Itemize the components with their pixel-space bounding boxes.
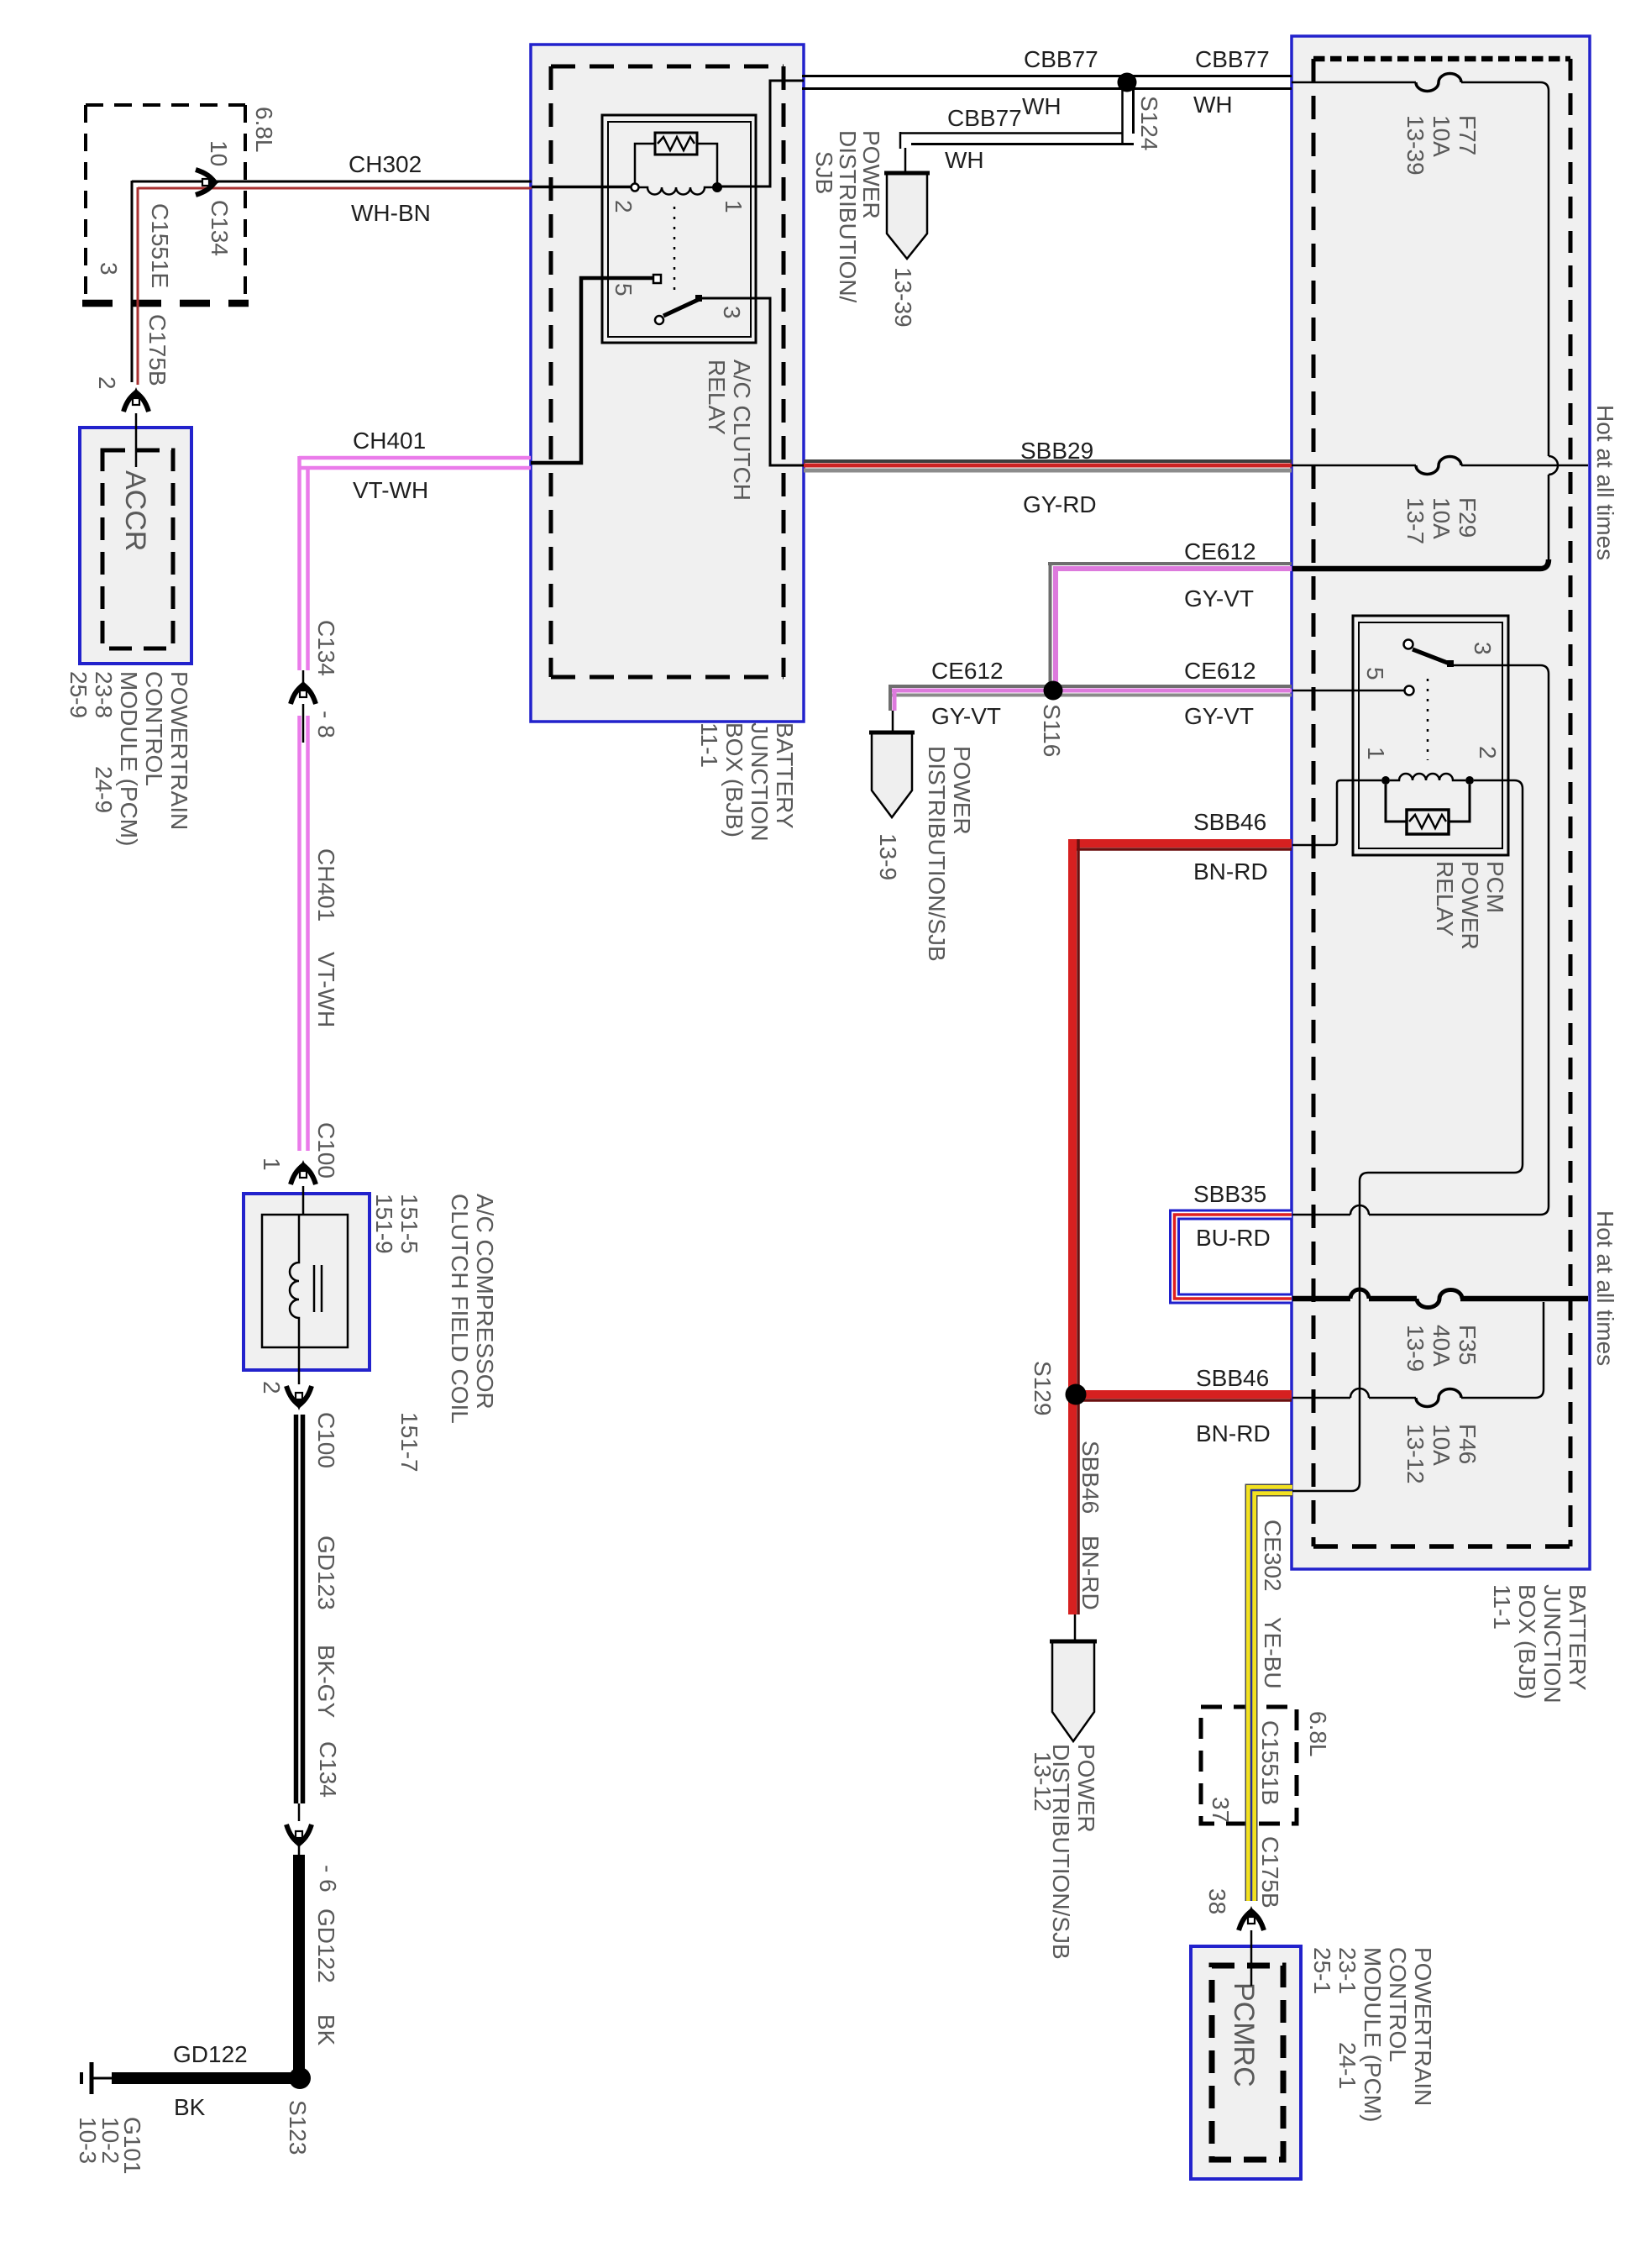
svg-text:POWER: POWER [1457,861,1483,950]
connector arrow C134 pin 8 (points up) [291,680,316,704]
fuse F77 [1416,74,1461,92]
svg-text:ACCR: ACCR [119,470,151,551]
svg-text:10A: 10A [1428,115,1455,157]
wire SBB46 BN-RD (to pin1, upper) [1069,839,1292,1614]
bus lower segment [1548,475,1550,560]
label F77 10A 13-39 [1402,115,1481,176]
wire below coil to C100 pin 2 [298,1347,301,1384]
connector arrow C175B pin 2 (points up) [123,387,149,412]
svg-text:SBB46: SBB46 [1196,1365,1269,1391]
label POWERTRAIN CONTROL MODULE (PCM) 23-8 24-9 25-9 [66,671,192,846]
fuse F35 (thick) [1417,1290,1462,1308]
node S116 [1044,681,1063,701]
wire F29 row left [1292,465,1416,467]
svg-text:40A: 40A [1428,1325,1455,1367]
label F35 40A 13-9 [1402,1325,1481,1372]
svg-text:WH-BN: WH-BN [351,200,431,226]
connector pennant POWER DISTRIBUTION/SJB 13-12 [1050,1641,1097,1741]
svg-text:SBB46: SBB46 [1077,1441,1103,1514]
svg-text:A/C CLUTCH: A/C CLUTCH [729,360,755,501]
BJB inner dashed rect [1313,59,1570,1546]
svg-text:CBB77: CBB77 [1195,46,1270,72]
connector arrow C134 pin 10 (points right) [196,170,220,195]
svg-text:C100: C100 [313,1122,339,1179]
svg-text:POWER: POWER [1073,1744,1099,1833]
svg-text:C175B: C175B [144,314,170,386]
wire SBB29 GY-RD (A/C relay to F29) [804,461,1292,470]
svg-text:151-5: 151-5 [396,1194,422,1254]
hop SBB35 top over internal vertical [1350,1205,1369,1215]
svg-text:C1551E: C1551E [147,203,173,288]
svg-text:C134: C134 [313,620,339,676]
svg-text:CH302: CH302 [349,151,422,177]
node S129 [1066,1384,1087,1405]
svg-text:151-9: 151-9 [371,1194,397,1254]
svg-text:1: 1 [259,1158,285,1171]
svg-text:BN-RD: BN-RD [1193,858,1268,885]
battery junction box BJB (right) [1292,36,1590,1569]
connector C1551E / C134 dashed box [82,105,249,303]
pin 5 terminal (PCM relay) [1405,686,1414,696]
connector arrow C134 pin 6 (points down) [286,1824,312,1849]
clutch coil symbol [290,1215,299,1347]
connector pennant POWER DISTRIBUTION/SJB 13-9 [869,732,915,817]
svg-text:C1551B: C1551B [1257,1720,1283,1805]
wire pin 2 to CE302 exit [1292,780,1523,1491]
svg-text:13-39: 13-39 [890,267,916,328]
svg-text:JUNCTION: JUNCTION [1539,1584,1565,1704]
svg-text:BK-GY: BK-GY [313,1645,339,1718]
fuse F77 feed wire [1292,81,1416,84]
svg-text:GY-RD: GY-RD [1023,491,1097,517]
svg-text:CBB77: CBB77 [947,105,1022,131]
svg-text:BATTERY: BATTERY [1565,1584,1591,1691]
wire into ACCR box [135,413,138,467]
svg-text:2: 2 [1475,746,1501,759]
svg-text:GY-VT: GY-VT [1184,703,1254,729]
svg-text:PCMRC: PCMRC [1228,1982,1260,2087]
fuse F46 [1416,1389,1461,1407]
pin 1 terminal [713,183,721,192]
svg-text:BN-RD: BN-RD [1196,1420,1271,1446]
wire F29 row right (hot at all times) [1461,465,1588,467]
svg-text:10A: 10A [1428,497,1455,539]
svg-text:YE-BU: YE-BU [1260,1617,1286,1689]
svg-text:Hot at all times: Hot at all times [1592,405,1618,560]
svg-text:CE612: CE612 [1184,658,1256,684]
wire CH302 WH-BN (black over red) horizontal [132,181,532,183]
wire pin1 to CBB77 exit [717,81,804,186]
svg-text:13-7: 13-7 [1402,497,1428,544]
pin 5 terminal [653,275,661,283]
svg-text:GY-VT: GY-VT [931,703,1001,729]
wire F46 row with hop [1292,1397,1416,1399]
svg-text:SBB35: SBB35 [1193,1181,1266,1207]
label POWER DISTRIBUTION/ SJB [811,130,884,303]
wire SBB46 to pin 1 [1292,780,1381,845]
svg-text:10A: 10A [1428,1424,1455,1466]
svg-text:C134: C134 [315,1741,341,1798]
svg-text:13-12: 13-12 [1402,1424,1428,1484]
wire CE612 GY-VT (upper, S116 to BJB) [1048,564,1292,685]
PCM relay switch arm [1404,640,1413,649]
wire CE612 to pin 5 [1292,690,1404,692]
svg-text:F46: F46 [1455,1424,1481,1464]
svg-text:WH: WH [945,147,984,173]
svg-text:6.8L: 6.8L [1305,1711,1331,1757]
svg-text:WH: WH [1022,93,1062,119]
CE612 internal thick feed [1292,559,1549,569]
svg-text:3: 3 [1470,642,1496,655]
wire CE302 YE-BU (yellow) [1251,1490,1292,1901]
svg-text:MODULE (PCM): MODULE (PCM) [116,671,142,846]
svg-text:S129: S129 [1030,1361,1056,1415]
svg-text:BOX (BJB): BOX (BJB) [721,722,747,837]
svg-text:CBB77: CBB77 [1024,46,1098,72]
label PCM POWER RELAY [1432,861,1508,950]
coil inner rect [262,1215,348,1347]
wire pin3 to SBB29 exit [702,298,804,465]
wire SBB35 BU-RD loop [1175,1215,1292,1299]
svg-text:GD122: GD122 [173,2041,248,2067]
svg-text:DISTRIBUTION/SJB: DISTRIBUTION/SJB [924,746,950,962]
svg-text:13-9: 13-9 [1402,1325,1428,1372]
wire CBB77 WH drop from S124 [900,87,1134,173]
svg-text:1: 1 [721,200,747,213]
svg-text:BK: BK [174,2094,206,2120]
svg-text:13-12: 13-12 [1030,1751,1056,1812]
svg-text:VT-WH: VT-WH [313,952,339,1027]
label BATTERY JUNCTION BOX (BJB) 11-1 (right box) [1489,1584,1591,1704]
svg-text:GY-VT: GY-VT [1184,585,1254,612]
ground G101 [81,2062,92,2094]
label BATTERY JUNCTION BOX (BJB) 11-1 (left box) [696,722,798,842]
svg-text:- 6: - 6 [315,1865,341,1893]
resistor (PCM relay suppression) [1407,810,1449,834]
svg-text:23-8: 23-8 [91,671,117,718]
svg-text:13-39: 13-39 [1402,115,1428,176]
wire SBB46 BN-RD (S129 to F46) [1076,1394,1292,1400]
svg-text:MODULE (PCM): MODULE (PCM) [1360,1947,1386,2122]
connector pennant POWER DISTRIBUTION/SJB 13-39 [884,173,930,259]
PCM relay armature dotted link [1427,679,1429,760]
pin 2 terminal (PCM relay) [1465,776,1474,785]
wire GD122 BK (horizontal) [112,2072,300,2084]
svg-text:38: 38 [1204,1888,1230,1914]
wire to ACCR (black+red vertical) [131,181,134,382]
svg-text:25-9: 25-9 [66,671,92,718]
svg-text:5: 5 [611,283,637,297]
svg-text:POWERTRAIN: POWERTRAIN [1410,1947,1436,2106]
svg-text:POWER: POWER [949,746,975,835]
svg-text:24-9: 24-9 [91,766,117,813]
svg-text:CONTROL: CONTROL [141,671,167,786]
svg-text:VT-WH: VT-WH [353,477,428,503]
connector C1551B dashed box [1201,1707,1297,1824]
svg-text:11-1: 11-1 [696,722,722,768]
svg-text:- 8: - 8 [313,711,339,738]
PCMRC inner dashed rect [1212,1966,1283,2160]
wire CH401 VT-WH (pink band horizontal) [299,456,531,670]
svg-text:13-9: 13-9 [875,833,901,880]
svg-text:CLUTCH FIELD COIL: CLUTCH FIELD COIL [447,1194,473,1424]
svg-text:2: 2 [94,376,120,390]
svg-text:10: 10 [206,140,232,166]
svg-text:CE612: CE612 [1184,538,1256,564]
svg-text:POWERTRAIN: POWERTRAIN [166,671,192,830]
wire CBB77 WH (white band, relay to BJB) [802,76,1292,89]
wire into PCMRC box [1250,1930,1253,1986]
svg-text:SJB: SJB [811,151,837,194]
svg-text:S123: S123 [285,2100,311,2155]
svg-text:BATTERY: BATTERY [772,722,798,829]
svg-text:CE612: CE612 [931,658,1004,684]
svg-text:S116: S116 [1039,704,1065,757]
svg-text:6.8L: 6.8L [251,107,277,153]
wire F46 to F35 feed [1461,1302,1544,1398]
svg-text:GD122: GD122 [313,1908,339,1983]
connector arrow C100 pin 2 (points down) [286,1386,312,1410]
svg-text:BU-RD: BU-RD [1196,1225,1271,1251]
relay armature dotted link [674,207,676,290]
svg-text:1: 1 [1363,747,1389,760]
label F29 10A 13-7 [1402,497,1481,544]
svg-text:CE302: CE302 [1260,1520,1286,1592]
resistor (A/C relay suppression) [655,133,697,155]
powertrain control module PCM box (left, ACCR) [80,428,191,664]
svg-text:POWER: POWER [858,130,884,219]
svg-text:SBB29: SBB29 [1020,438,1093,464]
svg-text:A/C COMPRESSOR: A/C COMPRESSOR [472,1194,498,1410]
ACCR inner dashed rect [102,450,173,648]
label F46 10A 13-12 [1402,1424,1481,1484]
svg-text:WH: WH [1193,92,1233,118]
label A/C CLUTCH RELAY [704,360,755,501]
svg-text:C175B: C175B [1257,1836,1283,1908]
wire CE612 GY-VT (left of S116) [889,686,1053,732]
svg-text:C100: C100 [313,1412,339,1468]
relay K2 PCM power relay outline [1353,616,1508,855]
A/C clutch relay box (BJB left) [531,45,804,722]
svg-text:F29: F29 [1455,497,1481,538]
svg-text:RELAY: RELAY [704,360,730,435]
svg-text:3: 3 [719,306,745,319]
svg-text:24-1: 24-1 [1334,2042,1360,2089]
svg-text:C134: C134 [207,200,233,256]
pin 1 terminal (PCM relay) [1381,776,1390,785]
svg-text:25-1: 25-1 [1309,1947,1335,1994]
A/C compressor clutch field coil box [244,1194,370,1370]
PCM relay coil [1390,774,1465,780]
svg-text:S124: S124 [1136,96,1162,150]
svg-text:Hot at all times: Hot at all times [1592,1210,1618,1366]
svg-text:BOX (BJB): BOX (BJB) [1514,1584,1540,1699]
relay K1 A/C clutch relay outline [602,115,756,343]
wire CH401 internal to pin 5 [531,278,653,463]
svg-text:3: 3 [96,262,122,276]
node S124 [1118,73,1137,92]
svg-text:CH401: CH401 [313,848,339,921]
svg-text:CONTROL: CONTROL [1385,1947,1411,2062]
svg-text:SBB46: SBB46 [1193,809,1266,835]
label POWER DISTRIBUTION/SJB [924,746,975,962]
pin 2 terminal [632,184,639,192]
wire GD122 BK (vertical) [293,1855,305,2071]
label POWERTRAIN CONTROL MODULE (PCM) 23-1 24-1 25-1 [1309,1947,1436,2122]
wire SBB46 below S129 to pennant [1074,1614,1077,1641]
bus hop over F29 row [1549,456,1558,475]
label POWER DISTRIBUTION/SJB (bottom) [1048,1744,1099,1960]
powertrain control module PCM box (bottom right, PCMRC) [1191,1946,1301,2179]
wire CH401 VT-WH (pink band vertical to C100) [300,716,308,1151]
svg-text:DISTRIBUTION/: DISTRIBUTION/ [835,130,861,303]
wire CE612 GY-VT (right of S116) [1053,686,1292,696]
wire F77 to bus [1461,82,1549,456]
svg-text:151-7: 151-7 [396,1412,422,1473]
svg-text:PCM: PCM [1482,861,1508,913]
label A/C COMPRESSOR CLUTCH FIELD COIL 151-5 151-7 151-9 [371,1194,498,1473]
connector arrow C100 pin 1 (points up) [291,1160,316,1184]
svg-text:GD123: GD123 [313,1536,339,1610]
label G101 10-2 10-3 [75,2117,145,2175]
node S123 [289,2067,311,2089]
fuse F29 [1416,457,1461,475]
svg-text:11-1: 11-1 [1489,1584,1515,1630]
svg-text:BK: BK [313,2014,339,2046]
wire F35 row (thick) with hop [1292,1296,1588,1302]
svg-text:F77: F77 [1455,115,1481,155]
connector arrow C175B pin 38 (points up) [1239,1906,1264,1930]
wire GD123 BK-GY (black band with gray core) [296,1415,303,1803]
svg-text:CH401: CH401 [353,428,426,454]
svg-text:RELAY: RELAY [1432,861,1458,937]
svg-text:2: 2 [611,200,637,213]
svg-text:10-3: 10-3 [75,2117,101,2164]
svg-text:2: 2 [259,1381,285,1394]
svg-text:JUNCTION: JUNCTION [747,722,773,842]
svg-text:F35: F35 [1455,1325,1481,1365]
svg-text:37: 37 [1208,1797,1234,1823]
svg-text:BN-RD: BN-RD [1077,1536,1103,1610]
svg-text:23-1: 23-1 [1334,1947,1360,1994]
relay switch arm [655,316,663,324]
A/C box inner dashed rect [551,66,784,677]
svg-text:5: 5 [1362,667,1388,680]
wire pin 3 to SBB35 top [1292,665,1549,1215]
relay coil (A/C relay) [639,187,713,195]
